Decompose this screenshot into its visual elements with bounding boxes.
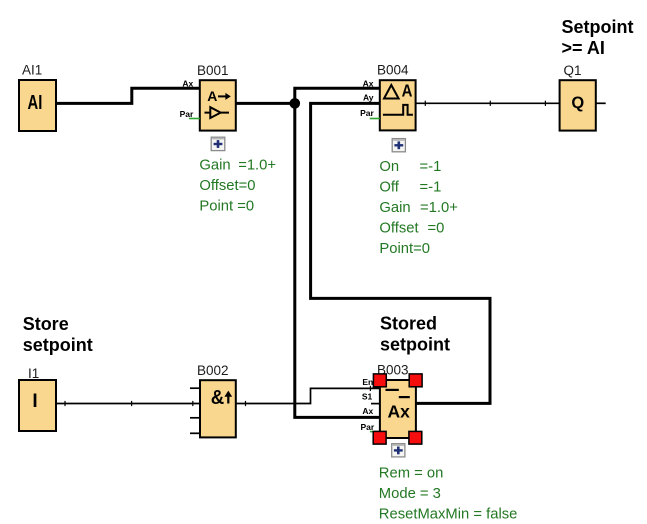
B003 max dash symbol	[386, 389, 399, 391]
svg-text:Ax: Ax	[388, 401, 411, 421]
output block Q1	[560, 80, 596, 130]
svg-text:B001: B001	[197, 63, 229, 78]
svg-text:AI1: AI1	[22, 63, 42, 78]
tick	[245, 401, 247, 406]
svg-text:Point =0: Point =0	[199, 199, 254, 215]
svg-text:Offset=0: Offset=0	[379, 221, 444, 237]
svg-text:I1: I1	[28, 366, 39, 381]
svg-text:B004: B004	[377, 63, 409, 78]
wire B003 out loop to B004 Ay	[311, 103, 490, 403]
plus button of B004	[392, 139, 405, 152]
plus button of B001	[211, 137, 225, 150]
svg-text:En: En	[362, 377, 373, 387]
input block I1	[19, 380, 56, 431]
edge-triggered AND block B002	[200, 380, 236, 437]
wire B001 out to junction	[236, 102, 295, 105]
plus button of B003	[392, 444, 405, 457]
svg-text:Ax: Ax	[182, 78, 193, 88]
svg-text:Gain=1.0+: Gain=1.0+	[199, 157, 276, 173]
B002 input stub 1	[190, 387, 200, 389]
svg-text:Par: Par	[360, 108, 374, 118]
svg-text:>= AI: >= AI	[562, 38, 605, 58]
B001 amplifier triangle symbol	[205, 107, 230, 118]
selection handle top-left	[373, 374, 386, 387]
junction node dot	[290, 98, 301, 109]
selection handle bottom-right	[409, 431, 422, 444]
svg-text:Ax: Ax	[362, 406, 373, 416]
B004 triangle symbol	[384, 85, 399, 99]
svg-text:ResetMaxMin = false: ResetMaxMin = false	[379, 507, 518, 523]
svg-text:Point=0: Point=0	[379, 241, 430, 257]
svg-text:Offset=0: Offset=0	[199, 178, 255, 194]
svg-text:Rem = on: Rem = on	[379, 465, 444, 481]
svg-text:A: A	[402, 81, 413, 101]
wire junction down to B003 Ax	[295, 103, 380, 417]
tick	[544, 101, 546, 106]
wire AI1 to B001 Ax (analog, bold)	[56, 88, 200, 103]
max/min block B003	[380, 380, 416, 438]
svg-text:AI: AI	[28, 92, 43, 114]
svg-text:I: I	[32, 391, 37, 412]
wire B004 out to Q1 (digital, thin)	[416, 102, 560, 104]
analog threshold trigger block B004	[380, 80, 416, 130]
svg-text:Store: Store	[23, 314, 69, 334]
B002 input stub 3	[190, 417, 200, 419]
B004 pulse symbol	[383, 105, 413, 115]
tick	[131, 401, 133, 406]
B001 Par green stub	[189, 118, 200, 120]
Q1 output stub	[596, 102, 606, 104]
B003 S1 stub	[371, 403, 380, 405]
tick	[489, 101, 491, 106]
tick	[424, 101, 426, 106]
B003 Par green stub	[370, 431, 380, 433]
wire junction up to B004 Ax	[295, 88, 380, 103]
svg-text:setpoint: setpoint	[23, 335, 93, 355]
selection handle top-right	[409, 374, 422, 387]
svg-text:Par: Par	[180, 109, 194, 119]
svg-text:Stored: Stored	[380, 314, 437, 334]
svg-text:Ax: Ax	[363, 78, 374, 88]
amplifier block B001	[200, 80, 236, 130]
svg-text:Ay: Ay	[363, 92, 374, 102]
selection handle bottom-left	[373, 431, 386, 444]
B004 Par green stub	[370, 118, 380, 120]
wire I1 to B002 (digital, thin)	[56, 403, 200, 405]
wire B002 out to B003 En (digital, thin)	[236, 388, 380, 403]
svg-text:setpoint: setpoint	[380, 335, 450, 355]
B003 min dash symbol	[399, 396, 410, 398]
svg-text:A: A	[207, 88, 217, 104]
svg-text:Q1: Q1	[564, 63, 582, 78]
tick	[64, 401, 66, 406]
input block AI1	[19, 80, 56, 131]
svg-text:Mode = 3: Mode = 3	[379, 486, 441, 502]
B002 input stub 4	[190, 432, 200, 434]
svg-text:&: &	[211, 387, 225, 409]
tick	[369, 386, 371, 391]
svg-text:Q: Q	[571, 94, 584, 112]
svg-text:S1: S1	[362, 391, 373, 401]
tick	[192, 401, 194, 406]
svg-text:Setpoint: Setpoint	[562, 17, 634, 37]
svg-text:B002: B002	[197, 363, 229, 378]
